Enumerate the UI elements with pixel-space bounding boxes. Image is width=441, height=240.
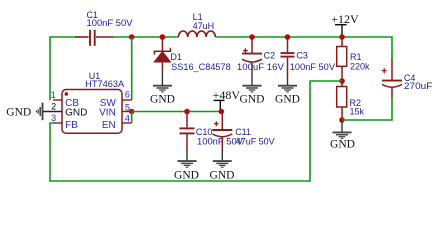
svg-text:100nF 50V: 100nF 50V	[87, 18, 133, 28]
svg-text:GND: GND	[210, 169, 235, 181]
svg-text:GND: GND	[240, 94, 265, 106]
inductor L1	[179, 12, 216, 37]
ground for C11	[210, 149, 235, 181]
pin 3 FB	[51, 113, 78, 131]
svg-text:C11: C11	[235, 127, 251, 137]
node C3 junction	[285, 34, 291, 40]
node C2 junction	[249, 34, 255, 40]
ground for C2	[240, 72, 265, 106]
svg-text:EN: EN	[102, 120, 116, 131]
pin 4 EN	[102, 114, 132, 131]
svg-text:GND: GND	[330, 139, 355, 151]
capacitor C10	[180, 112, 244, 150]
svg-text:VIN: VIN	[99, 107, 116, 118]
node FB junction between R1 R2	[339, 78, 345, 84]
wire top: C1 right to +12V corner and down to C4	[113, 37, 392, 60]
ground for C10	[174, 149, 199, 181]
svg-text:GND: GND	[275, 94, 300, 106]
svg-text:220k: 220k	[350, 62, 370, 72]
pin 1 CB	[51, 90, 80, 109]
diode D1 schottky	[154, 37, 231, 72]
capacitor C2 polarized	[237, 37, 284, 72]
svg-text:47uH: 47uH	[193, 21, 215, 31]
ground for C3	[275, 77, 300, 106]
wire R2 bottom to C4 bottom	[342, 97, 392, 120]
svg-text:6: 6	[125, 90, 130, 100]
wire top net SW/out: left riser to U1 pin1	[50, 37, 76, 100]
ground for D1	[150, 70, 175, 106]
capacitor C3	[281, 37, 336, 77]
IC U1 HT7463A	[62, 71, 124, 133]
node C10 junction	[184, 109, 190, 115]
ground for R2	[330, 120, 355, 151]
node SW junction (wire to U1 pin6)	[129, 34, 135, 100]
svg-text:SS16_C84578: SS16_C84578	[171, 62, 231, 72]
power +48V	[213, 88, 241, 112]
node +48V C11 junction	[219, 109, 225, 115]
pin 6 SW	[100, 90, 132, 110]
capacitor C11 polarized	[212, 112, 274, 150]
pin 5 VIN	[99, 102, 132, 118]
node D1 junction	[160, 34, 166, 40]
svg-text:GND: GND	[6, 107, 31, 119]
wire VIN to +48V	[132, 111, 222, 113]
capacitor C4 polarized	[382, 59, 433, 98]
svg-text:47uF 50V: 47uF 50V	[236, 137, 275, 147]
svg-text:C10: C10	[196, 127, 213, 137]
wire EN tie to VIN	[131, 112, 133, 124]
ground left of U1 pin2	[6, 103, 42, 121]
svg-text:3: 3	[51, 113, 56, 123]
svg-text:FB: FB	[65, 120, 78, 131]
resistor R2	[337, 81, 365, 120]
svg-text:GND: GND	[174, 169, 199, 181]
svg-text:D1: D1	[170, 52, 182, 62]
node R2 bottom junction	[339, 117, 345, 123]
svg-text:C3: C3	[296, 51, 308, 61]
svg-text:HT7463A: HT7463A	[85, 79, 124, 89]
svg-text:GND: GND	[150, 94, 175, 106]
node VIN junction at pin5	[129, 109, 135, 115]
pin 2 GND	[43, 102, 88, 119]
svg-text:1: 1	[51, 90, 56, 100]
wire FB loop to R1 R2 divider	[50, 81, 342, 181]
svg-text:GND: GND	[65, 107, 87, 118]
power +12V	[331, 12, 359, 37]
resistor R1	[337, 37, 370, 81]
svg-text:100nF 50V: 100nF 50V	[290, 62, 335, 72]
svg-text:100uF 16V: 100uF 16V	[237, 62, 284, 72]
node +12V junction	[339, 34, 345, 40]
svg-text:C2: C2	[264, 51, 276, 61]
svg-text:4: 4	[125, 114, 130, 124]
capacitor C1	[75, 10, 133, 46]
svg-text:270uF: 270uF	[404, 81, 433, 91]
svg-text:15k: 15k	[350, 107, 365, 117]
svg-text:2: 2	[51, 102, 56, 112]
